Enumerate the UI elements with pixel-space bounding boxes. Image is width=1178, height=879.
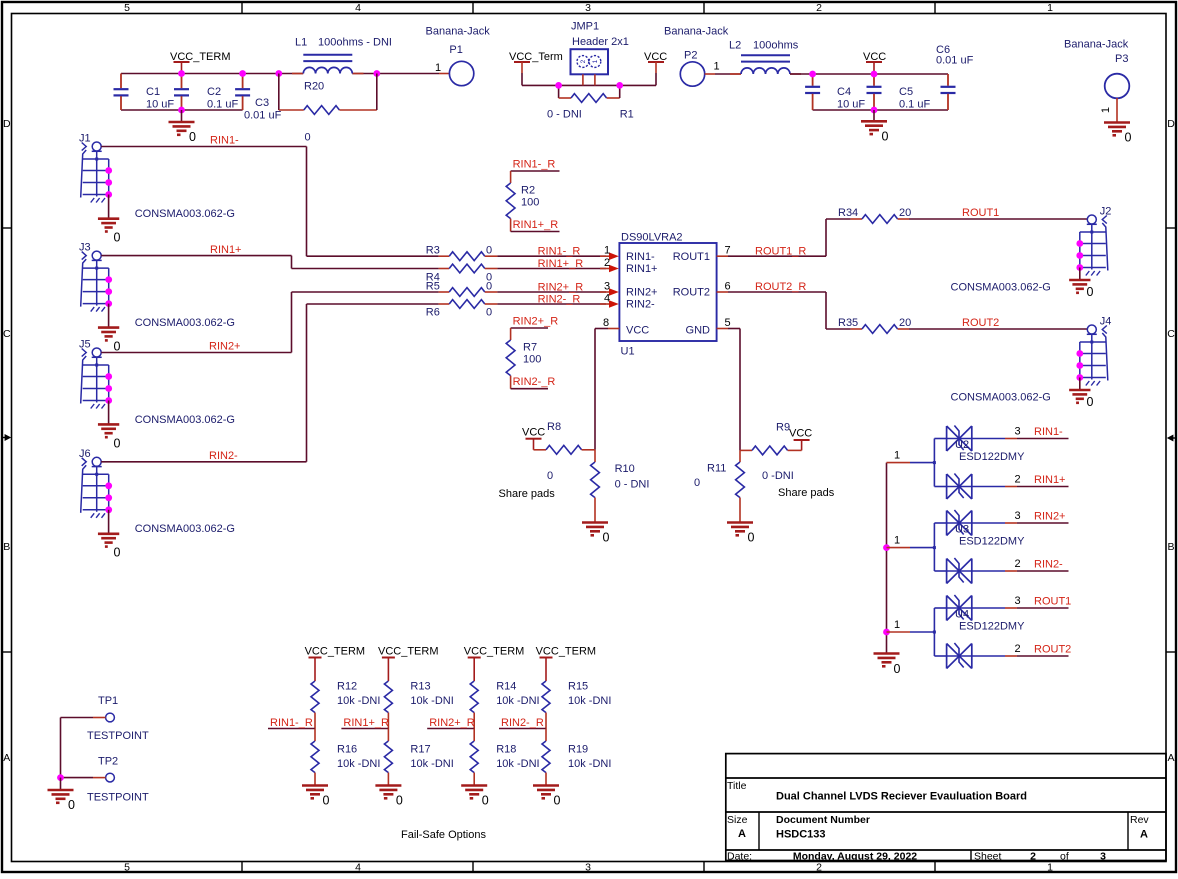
ground: [302, 786, 330, 808]
svg-text:C: C: [3, 328, 11, 340]
svg-text:L1: L1: [295, 37, 307, 49]
svg-text:A: A: [3, 752, 10, 764]
resistor R11: [694, 450, 744, 522]
svg-text:Sheet: Sheet: [974, 851, 1002, 863]
svg-text:R11: R11: [707, 463, 726, 475]
svg-text:CONSMA003.062-G: CONSMA003.062-G: [135, 317, 235, 329]
ground: [1069, 268, 1093, 300]
svg-text:0: 0: [894, 662, 901, 676]
svg-text:R8: R8: [547, 421, 561, 433]
ground: [461, 786, 489, 808]
ground: [727, 523, 755, 545]
svg-text:0: 0: [694, 477, 700, 489]
svg-text:R35: R35: [838, 317, 858, 329]
net label RIN1-_R: [513, 159, 556, 171]
svg-text:RIN2-: RIN2-: [209, 450, 238, 462]
wire VCC top bus: [790, 73, 948, 75]
svg-text:RIN2+: RIN2+: [1034, 511, 1066, 523]
net label ROUT1: [962, 207, 999, 219]
svg-text:1: 1: [604, 245, 610, 257]
svg-text:2: 2: [1030, 851, 1036, 863]
connector J4: [951, 316, 1112, 404]
svg-text:0 -DNI: 0 -DNI: [762, 470, 794, 482]
resistor R7: [506, 328, 548, 389]
connector J1: [79, 133, 235, 221]
svg-text:ESD122DMY: ESD122DMY: [959, 621, 1025, 633]
svg-text:10k -DNI: 10k -DNI: [337, 695, 380, 707]
power symbol VCC_TERM: [170, 51, 231, 74]
svg-text:0.1 uF: 0.1 uF: [207, 99, 238, 111]
banana-jack P3: [1064, 39, 1129, 114]
svg-text:CONSMA003.062-G: CONSMA003.062-G: [135, 414, 235, 426]
banana-jack P2: [664, 26, 729, 87]
svg-text:R13: R13: [410, 681, 430, 693]
svg-text:0: 0: [114, 340, 121, 354]
svg-text:ROUT2: ROUT2: [962, 317, 999, 329]
resistor R13: [384, 681, 453, 729]
svg-text:P1: P1: [449, 44, 462, 56]
svg-text:CONSMA003.062-G: CONSMA003.062-G: [951, 392, 1051, 404]
svg-text:100: 100: [523, 354, 541, 366]
junction dots top bus: [178, 70, 380, 113]
svg-text:L2: L2: [729, 40, 741, 52]
power symbol VCC_TERM: [536, 646, 597, 682]
svg-text:0: 0: [882, 129, 889, 143]
svg-text:0: 0: [486, 307, 492, 319]
svg-text:1: 1: [592, 59, 599, 63]
svg-text:1: 1: [1047, 862, 1053, 874]
net label RIN1+: [210, 244, 242, 256]
svg-text:ESD122DMY: ESD122DMY: [959, 451, 1025, 463]
svg-text:R2: R2: [521, 185, 535, 197]
svg-text:CONSMA003.062-G: CONSMA003.062-G: [951, 282, 1051, 294]
svg-text:Title: Title: [727, 780, 747, 792]
power symbol VCC: [789, 428, 812, 451]
svg-text:1: 1: [894, 450, 900, 462]
net label RIN1+_R: [538, 258, 584, 270]
svg-text:4: 4: [355, 862, 361, 874]
svg-text:0 - DNI: 0 - DNI: [547, 109, 582, 121]
resistor R10: [591, 450, 650, 523]
ground: [874, 654, 901, 677]
svg-text:RIN2-_R: RIN2-_R: [513, 376, 556, 388]
svg-text:R9: R9: [776, 422, 790, 434]
net label RIN2-_R: [513, 376, 556, 388]
ground: [582, 523, 610, 545]
svg-text:0: 0: [486, 281, 492, 293]
svg-text:R19: R19: [568, 744, 588, 756]
svg-text:RIN1-: RIN1-: [626, 251, 655, 263]
net label RIN2+: [209, 341, 241, 353]
svg-text:VCC_TERM: VCC_TERM: [536, 646, 597, 658]
svg-text:0: 0: [1087, 395, 1094, 409]
resistor R8: [499, 421, 596, 500]
svg-text:Header 2x1: Header 2x1: [572, 36, 629, 48]
svg-text:Document Number: Document Number: [776, 814, 870, 826]
ground: [1069, 378, 1093, 410]
svg-text:0.1 uF: 0.1 uF: [899, 99, 930, 111]
wire JMP bus: [522, 84, 656, 86]
net label RIN1+_R: [513, 219, 559, 231]
svg-text:HSDC133: HSDC133: [776, 829, 826, 841]
svg-text:C4: C4: [837, 86, 851, 98]
svg-text:0: 0: [114, 546, 121, 560]
svg-text:J2: J2: [1100, 206, 1112, 218]
svg-text:D: D: [3, 118, 11, 130]
svg-text:RIN1-_R: RIN1-_R: [538, 246, 581, 258]
svg-text:Banana-Jack: Banana-Jack: [664, 26, 729, 38]
svg-text:VCC: VCC: [626, 325, 649, 337]
wire VCC bottom bus: [813, 109, 948, 111]
ground: [48, 778, 76, 812]
svg-text:VCC_TERM: VCC_TERM: [305, 646, 366, 658]
wire cap bottom bus: [121, 109, 243, 111]
svg-text:ESD122DMY: ESD122DMY: [959, 536, 1025, 548]
svg-text:TESTPOINT: TESTPOINT: [87, 730, 149, 742]
svg-text:C5: C5: [899, 86, 913, 98]
connector J3: [79, 242, 235, 330]
svg-text:RIN2+_R: RIN2+_R: [538, 282, 584, 294]
svg-text:1: 1: [713, 61, 719, 73]
svg-text:VCC: VCC: [522, 427, 545, 439]
svg-text:0 - DNI: 0 - DNI: [615, 479, 650, 491]
svg-text:RIN2+_R: RIN2+_R: [429, 717, 475, 729]
svg-text:0: 0: [1087, 285, 1094, 299]
svg-text:2: 2: [1014, 474, 1020, 486]
svg-text:VCC: VCC: [789, 428, 812, 440]
ground: [98, 304, 121, 354]
svg-text:10k -DNI: 10k -DNI: [410, 695, 453, 707]
connector J6: [79, 448, 235, 535]
svg-text:U2: U2: [955, 439, 969, 451]
svg-text:10k -DNI: 10k -DNI: [568, 695, 611, 707]
svg-text:20: 20: [899, 207, 911, 219]
svg-text:0: 0: [748, 531, 755, 545]
svg-text:0: 0: [114, 437, 121, 451]
svg-text:0: 0: [114, 231, 121, 245]
svg-text:Banana-Jack: Banana-Jack: [1064, 39, 1129, 51]
svg-text:2: 2: [604, 257, 610, 269]
svg-text:A: A: [1140, 829, 1148, 841]
wire pin8 VCC: [595, 329, 619, 450]
svg-text:TP2: TP2: [98, 756, 118, 768]
svg-text:Share pads: Share pads: [499, 488, 556, 500]
svg-text:4: 4: [355, 2, 361, 14]
svg-text:ROUT2: ROUT2: [1034, 644, 1071, 656]
svg-text:Share pads: Share pads: [778, 487, 835, 499]
connector J2: [951, 206, 1112, 294]
ground: [861, 110, 889, 143]
ground: [375, 786, 403, 808]
resistor R18: [470, 729, 539, 786]
svg-text:Fail-Safe Options: Fail-Safe Options: [401, 829, 486, 841]
resistor R35: [826, 317, 911, 333]
svg-text:Date:: Date:: [727, 851, 752, 863]
wire RIN1+ net: [101, 256, 291, 269]
net label RIN2+_R: [513, 316, 559, 328]
svg-text:C1: C1: [146, 86, 160, 98]
svg-text:RIN2-: RIN2-: [626, 299, 655, 311]
svg-text:C3: C3: [255, 97, 269, 109]
svg-text:1: 1: [435, 62, 441, 74]
power symbol VCC_Term: [509, 51, 563, 85]
svg-text:RIN1-: RIN1-: [210, 135, 239, 147]
testpoint TP2: [87, 756, 149, 804]
svg-text:0: 0: [547, 470, 553, 482]
svg-text:1: 1: [1100, 107, 1112, 113]
resistor R16: [311, 729, 380, 786]
testpoint TP1: [87, 695, 149, 742]
svg-text:RIN2-: RIN2-: [1034, 559, 1063, 571]
svg-text:RIN2+_R: RIN2+_R: [513, 316, 559, 328]
wire RIN1- net: [101, 147, 306, 257]
svg-text:R17: R17: [410, 744, 430, 756]
svg-text:RIN1+_R: RIN1+_R: [513, 219, 559, 231]
junction dots JMP bus: [555, 82, 623, 89]
svg-text:0: 0: [486, 245, 492, 257]
svg-text:RIN1-_R: RIN1-_R: [513, 159, 556, 171]
svg-text:0: 0: [68, 798, 75, 812]
resistor R20: [279, 74, 377, 144]
svg-text:R34: R34: [838, 207, 858, 219]
capacitor C6: [936, 44, 974, 110]
wire ROUT2_R: [717, 292, 826, 329]
power symbol VCC: [863, 51, 886, 74]
svg-text:R7: R7: [523, 342, 537, 354]
banana-jack P1: [426, 26, 491, 86]
svg-text:DS90LVRA2: DS90LVRA2: [621, 232, 683, 244]
svg-text:10 uF: 10 uF: [837, 99, 865, 111]
resistor R1: [547, 85, 634, 120]
svg-text:ROUT1: ROUT1: [1034, 596, 1071, 608]
resistor R3: [307, 245, 619, 261]
svg-text:10k -DNI: 10k -DNI: [410, 758, 453, 770]
svg-text:Rev: Rev: [1130, 814, 1149, 826]
wire ROUT2 net: [909, 328, 1087, 330]
svg-text:ROUT2: ROUT2: [673, 287, 710, 299]
ground: [169, 110, 197, 144]
svg-text:RIN1+_R: RIN1+_R: [343, 717, 389, 729]
svg-text:CONSMA003.062-G: CONSMA003.062-G: [135, 523, 235, 535]
svg-text:0: 0: [482, 794, 489, 808]
ESD diode U2: [887, 426, 1069, 500]
svg-text:3: 3: [1014, 595, 1020, 607]
wire ESD trunk: [886, 463, 888, 654]
svg-text:VCC_TERM: VCC_TERM: [464, 646, 525, 658]
svg-text:7: 7: [724, 245, 730, 257]
net label ROUT1_R: [755, 246, 806, 258]
svg-text:B: B: [3, 541, 10, 553]
connector J5: [79, 339, 235, 427]
svg-text:R14: R14: [496, 681, 516, 693]
svg-text:J1: J1: [79, 133, 91, 145]
svg-text:R15: R15: [568, 681, 588, 693]
svg-text:J3: J3: [79, 242, 91, 254]
resistor R19: [542, 729, 611, 786]
svg-text:RIN2-_R: RIN2-_R: [501, 717, 544, 729]
svg-text:1: 1: [1047, 2, 1053, 14]
svg-text:R3: R3: [426, 245, 440, 257]
svg-text:2: 2: [816, 862, 822, 874]
svg-text:JMP1: JMP1: [571, 21, 599, 33]
svg-text:RIN1+: RIN1+: [626, 263, 658, 275]
resistor R12: [311, 681, 380, 729]
svg-text:ROUT1_R: ROUT1_R: [755, 246, 806, 258]
svg-text:10k -DNI: 10k -DNI: [496, 758, 539, 770]
net stub RIN2-_R: [499, 717, 546, 729]
svg-text:RIN1+: RIN1+: [210, 244, 242, 256]
svg-text:TP1: TP1: [98, 695, 118, 707]
IC U1 DS90LVRA2: [603, 232, 731, 358]
svg-text:R5: R5: [426, 281, 440, 293]
svg-text:2: 2: [816, 2, 822, 14]
svg-text:C: C: [1167, 328, 1175, 340]
power symbol VCC: [644, 51, 667, 85]
net label RIN1-_R: [538, 246, 581, 258]
svg-text:3: 3: [585, 2, 591, 14]
svg-text:100ohms: 100ohms: [753, 40, 799, 52]
svg-text:U1: U1: [621, 346, 635, 358]
svg-text:ROUT1: ROUT1: [673, 251, 710, 263]
svg-text:P3: P3: [1115, 53, 1128, 65]
wire ROUT1 net: [909, 218, 1087, 220]
svg-text:5: 5: [124, 2, 130, 14]
net label RIN1-: [210, 135, 239, 147]
resistor R9: [740, 422, 835, 500]
svg-text:3: 3: [1014, 426, 1020, 438]
svg-text:ROUT1: ROUT1: [962, 207, 999, 219]
svg-text:0: 0: [1125, 131, 1132, 145]
svg-text:A: A: [738, 828, 746, 840]
inductor L1: [292, 37, 392, 74]
capacitor C5: [867, 74, 931, 111]
svg-text:Monday, August 29, 2022: Monday, August 29, 2022: [793, 851, 917, 863]
ground: [98, 510, 121, 560]
svg-text:3: 3: [604, 280, 610, 292]
svg-text:J5: J5: [79, 339, 91, 351]
net label RIN2-: [209, 450, 238, 462]
net stub RIN2+_R: [427, 717, 475, 729]
wire VCC_TERM top bus: [121, 73, 449, 75]
wire pin5 GND: [717, 329, 740, 451]
power symbol VCC_TERM: [378, 646, 439, 682]
svg-text:Size: Size: [727, 814, 748, 826]
svg-text:R6: R6: [426, 307, 440, 319]
svg-text:3: 3: [1014, 510, 1020, 522]
net stub RIN1-_R: [268, 717, 315, 729]
svg-text:RIN2-_R: RIN2-_R: [538, 294, 581, 306]
svg-text:0: 0: [603, 531, 610, 545]
ground: [1104, 123, 1132, 145]
ground: [98, 401, 121, 451]
svg-text:R12: R12: [337, 681, 357, 693]
svg-text:R18: R18: [496, 744, 516, 756]
svg-text:GND: GND: [686, 325, 711, 337]
svg-text:4: 4: [604, 292, 610, 304]
svg-text:1: 1: [894, 535, 900, 547]
resistor R14: [470, 681, 539, 729]
svg-text:0.01 uF: 0.01 uF: [936, 55, 974, 67]
svg-text:C2: C2: [207, 86, 221, 98]
svg-text:10k -DNI: 10k -DNI: [337, 758, 380, 770]
inductor L2: [729, 40, 801, 75]
resistor R5: [292, 281, 619, 297]
svg-text:VCC_TERM: VCC_TERM: [378, 646, 439, 658]
resistor R17: [384, 729, 453, 786]
svg-text:2: 2: [1014, 643, 1020, 655]
svg-text:3: 3: [1100, 851, 1106, 863]
net label ROUT2: [962, 317, 999, 329]
junction dots VCC bus: [809, 71, 877, 114]
svg-text:RIN1+: RIN1+: [1034, 474, 1066, 486]
svg-text:B: B: [1167, 541, 1174, 553]
svg-text:J4: J4: [1100, 316, 1112, 328]
svg-text:of: of: [1060, 851, 1069, 863]
resistor R4: [292, 264, 619, 283]
ground: [98, 195, 121, 245]
wire P2 to L2: [705, 73, 741, 75]
wire RIN2+ net: [101, 292, 291, 353]
svg-text:0: 0: [323, 794, 330, 808]
svg-text:D: D: [1167, 118, 1175, 130]
net stub RIN1+_R: [341, 717, 389, 729]
resistor R15: [542, 681, 611, 729]
wire ROUT1_R: [717, 219, 826, 256]
svg-text:R10: R10: [615, 463, 635, 475]
svg-text:R1: R1: [620, 109, 634, 121]
power symbol VCC: [522, 427, 545, 450]
capacitor C2: [174, 74, 238, 111]
svg-text:0: 0: [396, 794, 403, 808]
svg-text:RIN1+_R: RIN1+_R: [538, 258, 584, 270]
svg-text:U3: U3: [955, 524, 969, 536]
power symbol VCC_TERM: [464, 646, 525, 682]
power symbol VCC_TERM: [305, 646, 366, 682]
svg-text:P2: P2: [684, 50, 697, 62]
svg-text:1: 1: [894, 619, 900, 631]
resistor R2: [506, 171, 559, 232]
ESD diode U4: [883, 595, 1071, 669]
svg-text:5: 5: [124, 862, 130, 874]
svg-text:0: 0: [189, 130, 196, 144]
svg-text:0: 0: [554, 794, 561, 808]
svg-text:0.01 uF: 0.01 uF: [244, 110, 282, 122]
svg-text:0: 0: [305, 132, 311, 144]
wire RIN2- net: [101, 304, 306, 462]
svg-text:8: 8: [603, 317, 609, 329]
net label RIN2+_R: [538, 282, 584, 294]
resistor R6: [307, 300, 619, 319]
svg-text:100ohms - DNI: 100ohms - DNI: [318, 37, 392, 49]
svg-text:A: A: [1167, 752, 1174, 764]
wire TP1: [61, 718, 106, 778]
svg-text:Dual Channel LVDS Reciever Eva: Dual Channel LVDS Reciever Evauluation B…: [776, 791, 1027, 803]
net label RIN2-_R: [538, 294, 581, 306]
ground: [533, 786, 561, 808]
text Fail-Safe Options: [401, 829, 486, 841]
resistor R34: [826, 207, 911, 223]
svg-text:U4: U4: [955, 609, 969, 621]
svg-text:CONSMA003.062-G: CONSMA003.062-G: [135, 208, 235, 220]
svg-text:100: 100: [521, 197, 539, 209]
net label ROUT2_R: [755, 281, 806, 293]
svg-text:6: 6: [724, 280, 730, 292]
svg-text:TESTPOINT: TESTPOINT: [87, 792, 149, 804]
capacitor C4: [805, 74, 865, 111]
svg-text:5: 5: [724, 317, 730, 329]
capacitor C1: [114, 74, 175, 111]
svg-text:Banana-Jack: Banana-Jack: [426, 26, 491, 38]
